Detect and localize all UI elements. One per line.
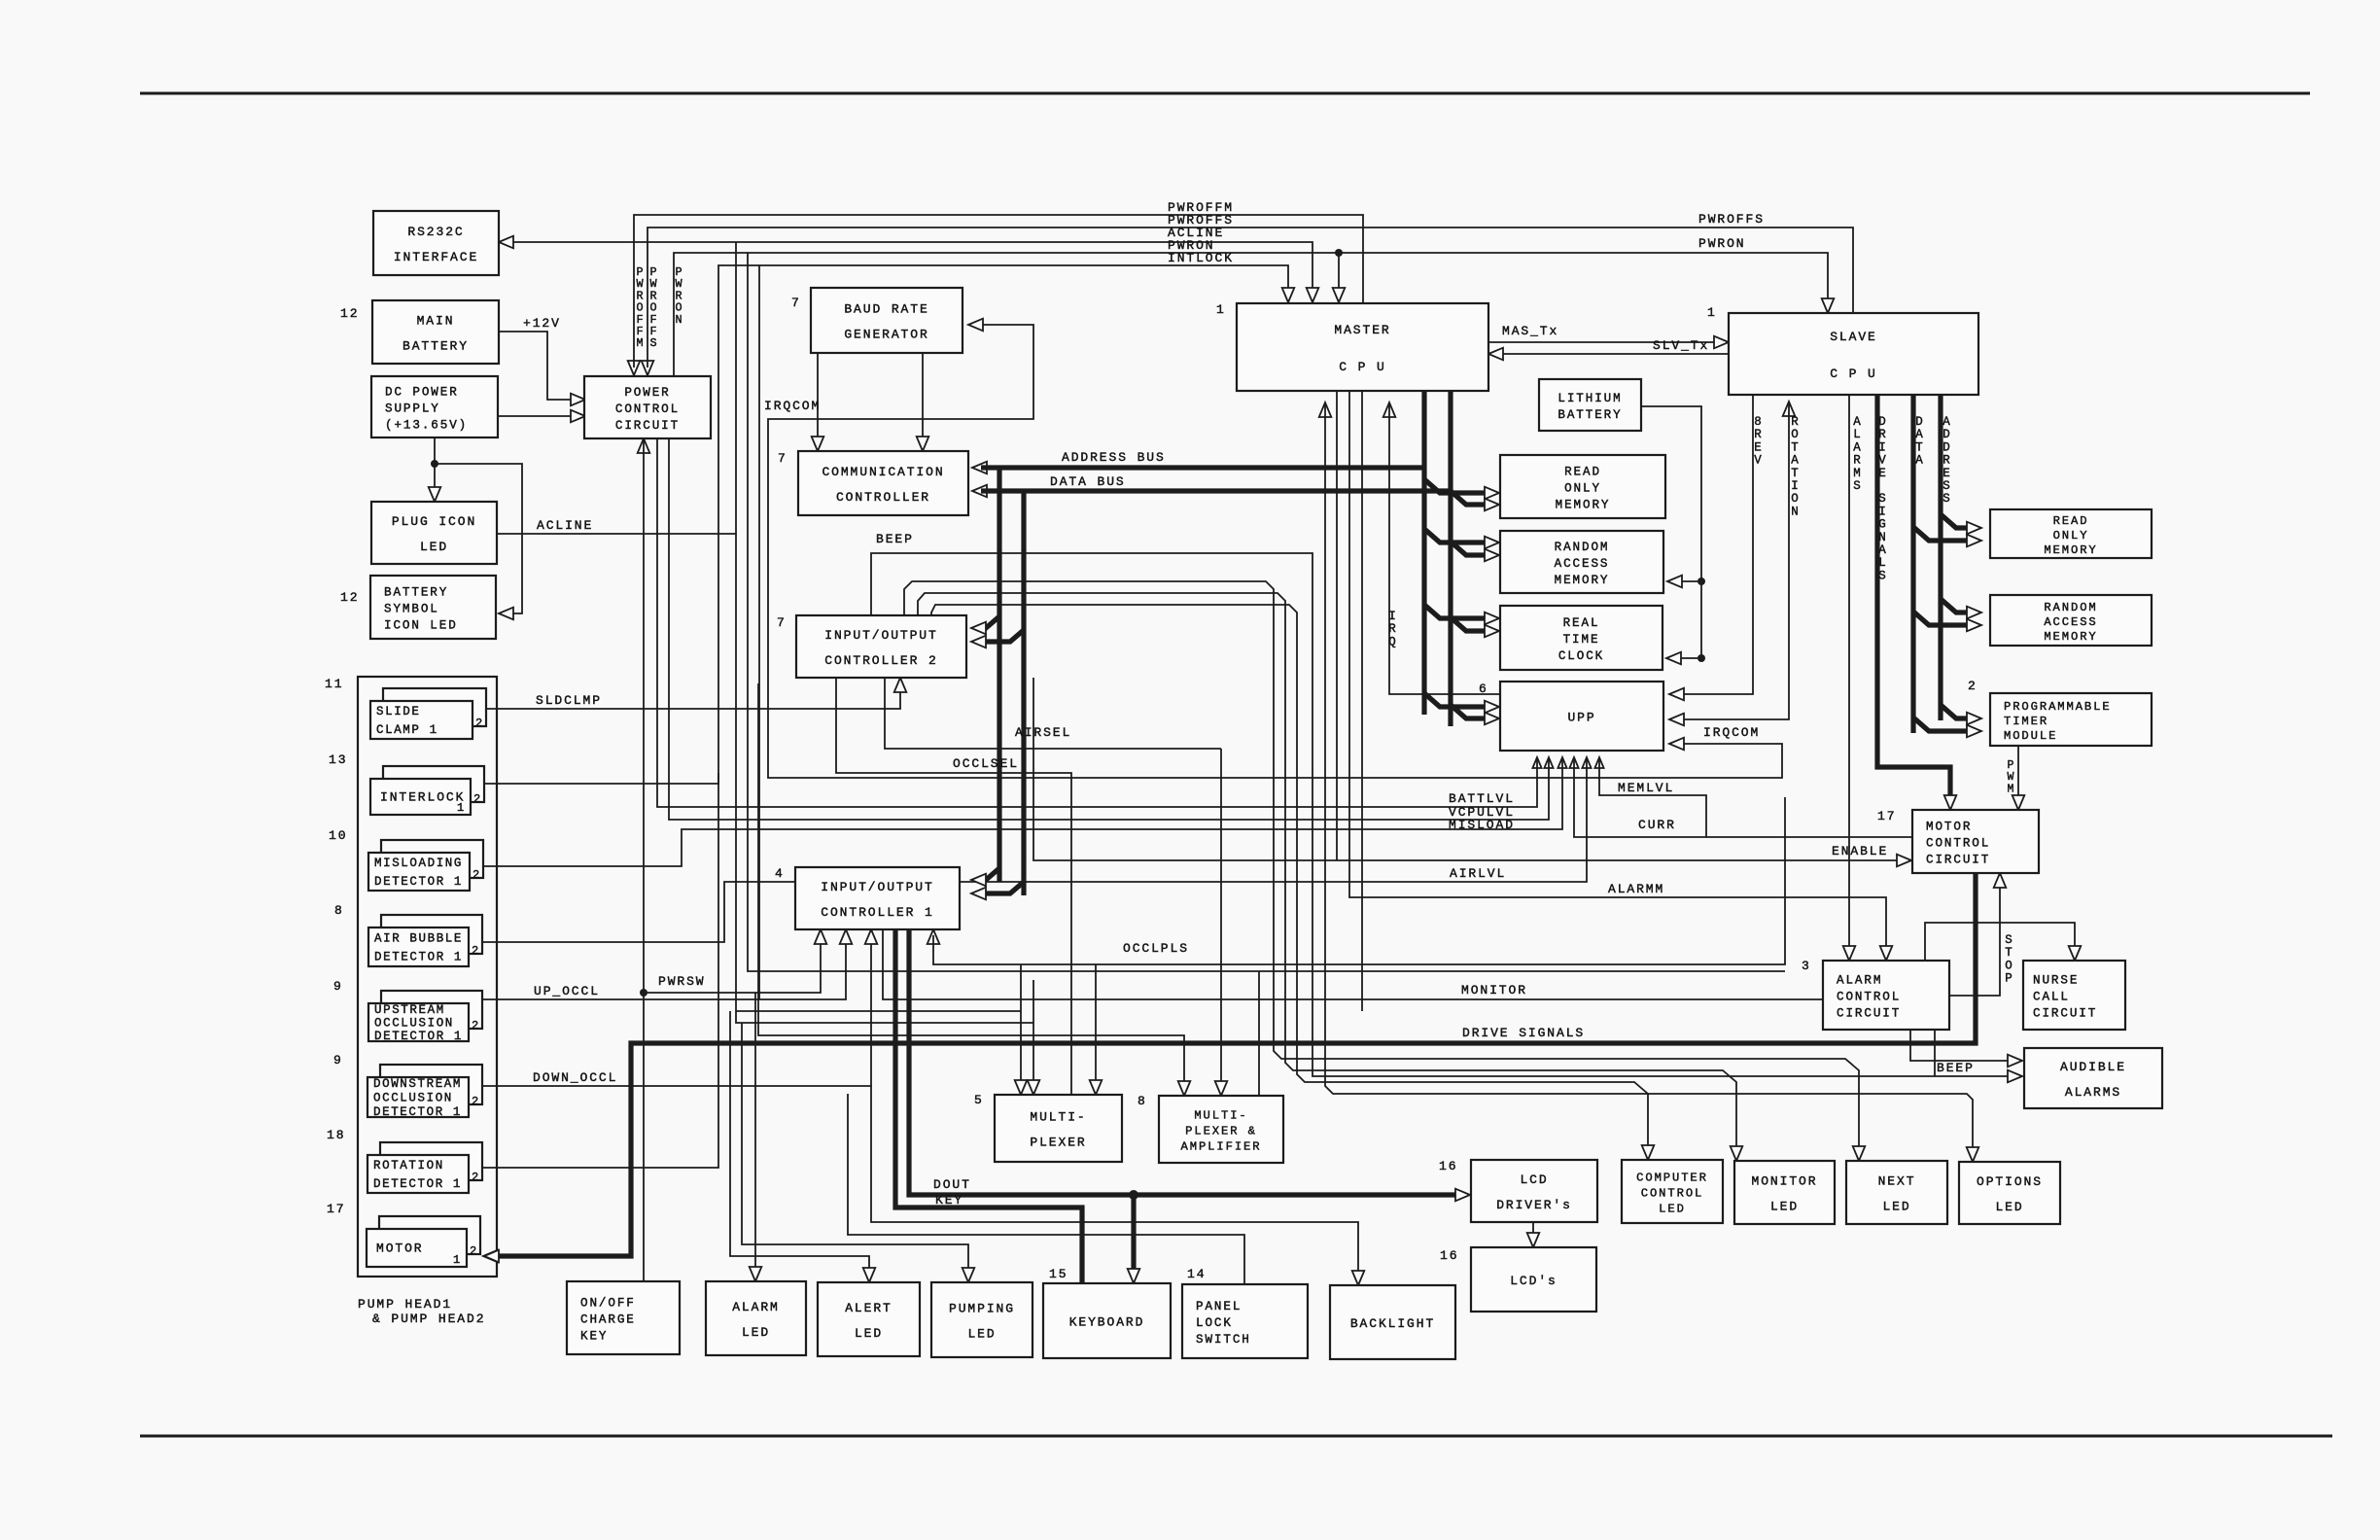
svg-text:LOCK: LOCK [1196, 1316, 1233, 1330]
svg-text:I: I [1791, 479, 1799, 493]
svg-text:INPUT/OUTPUT: INPUT/OUTPUT [821, 880, 933, 894]
svg-text:PLUG ICON: PLUG ICON [392, 514, 476, 529]
svg-text:6: 6 [1479, 682, 1488, 696]
svg-text:G: G [1878, 518, 1886, 532]
svg-text:ACCESS: ACCESS [1555, 557, 1610, 571]
svg-text:D: D [1942, 440, 1950, 454]
svg-text:SLAVE: SLAVE [1830, 330, 1877, 344]
svg-text:1: 1 [453, 1253, 462, 1267]
svg-text:DC POWER: DC POWER [385, 386, 459, 400]
svg-text:MISLOAD: MISLOAD [1449, 818, 1515, 832]
svg-text:BEEP: BEEP [876, 532, 914, 546]
svg-text:DETECTOR 1: DETECTOR 1 [374, 1030, 463, 1043]
svg-text:CONTROL: CONTROL [1837, 991, 1901, 1004]
svg-text:MEMORY: MEMORY [2044, 543, 2097, 557]
svg-text:CONTROL: CONTROL [1926, 837, 1990, 851]
svg-text:COMMUNICATION: COMMUNICATION [822, 465, 944, 479]
svg-text:MISLOADING: MISLOADING [374, 857, 463, 870]
svg-text:PLEXER: PLEXER [1030, 1136, 1086, 1150]
svg-text:DRIVER's: DRIVER's [1496, 1198, 1572, 1212]
svg-text:IRQCOM: IRQCOM [1703, 725, 1760, 740]
svg-text:SLIDE: SLIDE [376, 705, 421, 718]
svg-text:AIR BUBBLE: AIR BUBBLE [374, 932, 463, 946]
svg-text:D: D [1878, 415, 1886, 429]
svg-text:R: R [1853, 454, 1861, 468]
svg-text:9: 9 [333, 979, 343, 994]
svg-text:INTLOCK: INTLOCK [1168, 251, 1234, 265]
svg-text:14: 14 [1187, 1267, 1206, 1281]
svg-text:C P U: C P U [1830, 367, 1877, 381]
svg-text:MEMORY: MEMORY [1556, 499, 1611, 512]
svg-text:OCCLUSION: OCCLUSION [373, 1092, 453, 1105]
svg-text:S: S [1942, 492, 1950, 506]
svg-text:V: V [1754, 454, 1762, 468]
svg-text:BATTLVL: BATTLVL [1449, 791, 1515, 806]
svg-text:RANDOM: RANDOM [1555, 541, 1610, 554]
svg-text:CIRCUIT: CIRCUIT [615, 419, 680, 433]
svg-text:ROTATION: ROTATION [373, 1159, 444, 1172]
svg-text:ADDRESS BUS: ADDRESS BUS [1062, 450, 1166, 465]
svg-text:2: 2 [470, 1244, 478, 1258]
svg-text:I: I [1878, 440, 1886, 454]
svg-text:S: S [1878, 492, 1886, 506]
svg-text:8: 8 [334, 903, 344, 918]
svg-text:OPTIONS: OPTIONS [1977, 1174, 2043, 1189]
svg-text:ACCESS: ACCESS [2044, 615, 2097, 629]
svg-text:CONTROLLER 1: CONTROLLER 1 [821, 905, 933, 920]
svg-text:CONTROLLER 2: CONTROLLER 2 [824, 653, 937, 668]
svg-text:MEMORY: MEMORY [1555, 574, 1610, 587]
svg-text:17: 17 [1877, 809, 1896, 823]
svg-text:T: T [1791, 440, 1799, 454]
svg-text:TIME: TIME [1563, 633, 1600, 647]
svg-text:MONITOR: MONITOR [1461, 983, 1527, 997]
svg-text:DRIVE SIGNALS: DRIVE SIGNALS [1462, 1026, 1585, 1040]
svg-text:LED: LED [1770, 1200, 1799, 1214]
svg-text:AUDIBLE: AUDIBLE [2060, 1060, 2126, 1074]
svg-text:UPSTREAM: UPSTREAM [374, 1003, 445, 1017]
svg-text:TIMER: TIMER [2004, 715, 2048, 728]
svg-text:READ: READ [1564, 466, 1601, 479]
svg-text:AIRLVL: AIRLVL [1450, 866, 1506, 881]
svg-text:E: E [1754, 440, 1762, 454]
svg-text:P: P [2008, 759, 2014, 772]
svg-text:ONLY: ONLY [2053, 529, 2089, 542]
svg-text:12: 12 [340, 590, 359, 605]
svg-text:E: E [1942, 467, 1950, 480]
svg-text:R: R [1878, 428, 1886, 441]
svg-text:2: 2 [472, 944, 480, 958]
svg-text:MONITOR: MONITOR [1752, 1174, 1818, 1189]
svg-text:MULTI-: MULTI- [1194, 1109, 1247, 1123]
svg-text:PWRSW: PWRSW [658, 974, 706, 989]
svg-text:2: 2 [1968, 679, 1977, 693]
svg-text:D: D [1942, 428, 1950, 441]
svg-text:1: 1 [1216, 302, 1226, 317]
svg-text:12: 12 [340, 306, 359, 321]
svg-text:A: A [1915, 428, 1923, 441]
svg-text:ALARMM: ALARMM [1608, 882, 1664, 896]
svg-text:BACKLIGHT: BACKLIGHT [1350, 1316, 1435, 1331]
svg-text:+12V: +12V [523, 316, 561, 331]
svg-text:V: V [1878, 454, 1886, 468]
svg-text:ICON LED: ICON LED [384, 619, 458, 633]
svg-text:BATTERY: BATTERY [402, 339, 469, 354]
svg-text:18: 18 [327, 1128, 345, 1142]
svg-text:KEYBOARD: KEYBOARD [1069, 1315, 1145, 1330]
svg-text:ON/OFF: ON/OFF [580, 1297, 636, 1311]
svg-text:KEY: KEY [935, 1193, 963, 1207]
svg-text:1: 1 [1707, 305, 1717, 320]
svg-text:I: I [1878, 505, 1886, 518]
svg-text:13: 13 [329, 752, 347, 767]
svg-text:LED: LED [1995, 1200, 2023, 1214]
svg-text:SLV_Tx: SLV_Tx [1653, 338, 1709, 353]
svg-text:T: T [1915, 440, 1923, 454]
svg-text:DOWN_OCCL: DOWN_OCCL [533, 1070, 617, 1085]
svg-text:SUPPLY: SUPPLY [385, 402, 440, 416]
svg-text:DOWNSTREAM: DOWNSTREAM [373, 1077, 462, 1091]
svg-text:IRQCOM: IRQCOM [764, 399, 821, 413]
svg-text:INTERLOCK: INTERLOCK [380, 790, 465, 805]
svg-text:3: 3 [1802, 959, 1811, 973]
svg-text:R: R [1791, 415, 1799, 429]
svg-text:OCCLPLS: OCCLPLS [1123, 941, 1189, 956]
svg-text:ONLY: ONLY [1564, 482, 1601, 496]
svg-text:M: M [2008, 783, 2014, 795]
svg-text:OCCLSEL: OCCLSEL [953, 756, 1019, 771]
svg-text:POWER: POWER [624, 386, 670, 400]
svg-text:DETECTOR 1: DETECTOR 1 [374, 951, 463, 964]
svg-text:5: 5 [974, 1093, 984, 1107]
svg-text:PWROFFS: PWROFFS [1698, 212, 1765, 227]
svg-text:CIRCUIT: CIRCUIT [2033, 1007, 2097, 1021]
svg-text:2: 2 [472, 868, 481, 882]
svg-text:S: S [2005, 933, 2012, 947]
svg-text:RANDOM: RANDOM [2044, 601, 2097, 614]
svg-text:CURR: CURR [1638, 818, 1676, 832]
svg-text:PUMPING: PUMPING [949, 1302, 1015, 1316]
svg-text:2: 2 [473, 792, 482, 806]
svg-text:CALL: CALL [2033, 991, 2070, 1004]
svg-text:L: L [1878, 556, 1886, 570]
svg-text:PROGRAMMABLE: PROGRAMMABLE [2004, 700, 2112, 714]
svg-text:READ: READ [2053, 514, 2089, 528]
svg-text:PANEL: PANEL [1196, 1300, 1242, 1313]
svg-text:ALERT: ALERT [845, 1301, 892, 1315]
svg-text:CONTROLLER: CONTROLLER [836, 490, 930, 505]
svg-text:CHARGE: CHARGE [580, 1313, 636, 1327]
svg-text:CONTROL: CONTROL [1641, 1187, 1704, 1201]
svg-text:SYMBOL: SYMBOL [384, 603, 439, 616]
svg-text:PWRON: PWRON [1698, 236, 1746, 251]
svg-text:PLEXER &: PLEXER & [1185, 1125, 1257, 1138]
svg-text:R: R [1754, 428, 1762, 441]
svg-text:MAS_Tx: MAS_Tx [1502, 324, 1558, 338]
svg-text:15: 15 [1049, 1267, 1067, 1281]
svg-text:DATA BUS: DATA BUS [1050, 474, 1126, 489]
svg-text:CLAMP 1: CLAMP 1 [376, 723, 438, 737]
svg-text:BAUD RATE: BAUD RATE [844, 302, 928, 317]
svg-text:ALARM: ALARM [732, 1300, 780, 1314]
svg-text:2: 2 [472, 1019, 480, 1032]
svg-text:T: T [1791, 467, 1799, 480]
svg-text:MEMORY: MEMORY [2044, 630, 2097, 644]
svg-text:2: 2 [472, 1171, 480, 1184]
svg-text:O: O [2005, 959, 2012, 972]
svg-text:OCCLUSION: OCCLUSION [374, 1017, 454, 1031]
svg-text:MAIN: MAIN [417, 314, 455, 329]
svg-text:INTERFACE: INTERFACE [394, 250, 478, 264]
svg-text:MOTOR: MOTOR [1926, 821, 1972, 834]
svg-text:CIRCUIT: CIRCUIT [1837, 1007, 1901, 1021]
svg-text:A: A [1853, 440, 1861, 454]
svg-text:W: W [2008, 771, 2014, 784]
svg-text:16: 16 [1440, 1248, 1458, 1263]
svg-text:LCD: LCD [1520, 1172, 1548, 1187]
svg-text:S: S [1853, 479, 1861, 493]
svg-text:C P U: C P U [1339, 360, 1386, 374]
svg-text:MEMLVL: MEMLVL [1618, 781, 1674, 795]
svg-text:LITHIUM: LITHIUM [1557, 392, 1622, 405]
svg-text:O: O [1791, 492, 1799, 506]
svg-text:DETECTOR 1: DETECTOR 1 [373, 1105, 462, 1119]
svg-text:P: P [2005, 972, 2012, 986]
svg-text:2: 2 [475, 717, 484, 730]
svg-text:LED: LED [855, 1326, 883, 1341]
svg-text:2: 2 [472, 1095, 480, 1108]
svg-text:BATTERY: BATTERY [1557, 408, 1622, 422]
svg-text:MULTI-: MULTI- [1030, 1110, 1086, 1125]
svg-text:ENABLE: ENABLE [1832, 844, 1888, 858]
svg-text:N: N [675, 313, 682, 327]
svg-text:BEEP: BEEP [1937, 1061, 1975, 1075]
svg-text:CIRCUIT: CIRCUIT [1926, 854, 1990, 867]
svg-text:MODULE: MODULE [2004, 729, 2057, 743]
svg-text:REAL: REAL [1563, 616, 1600, 630]
svg-text:MOTOR: MOTOR [376, 1242, 424, 1256]
svg-text:N: N [1878, 531, 1886, 544]
svg-text:A: A [1853, 415, 1861, 429]
svg-text:7: 7 [777, 615, 787, 630]
svg-text:T: T [2005, 946, 2012, 960]
svg-text:O: O [1791, 428, 1799, 441]
svg-text:M: M [636, 336, 643, 350]
svg-text:17: 17 [327, 1202, 345, 1216]
svg-text:LED: LED [967, 1327, 996, 1342]
svg-text:DOUT: DOUT [933, 1177, 971, 1192]
svg-text:S: S [649, 336, 656, 350]
svg-text:AMPLIFIER: AMPLIFIER [1181, 1140, 1262, 1154]
svg-text:UP_OCCL: UP_OCCL [534, 984, 600, 998]
svg-text:SLDCLMP: SLDCLMP [536, 693, 602, 708]
svg-text:ACLINE: ACLINE [537, 518, 593, 533]
svg-text:M: M [1853, 467, 1861, 480]
svg-text:16: 16 [1439, 1159, 1457, 1173]
svg-text:SWITCH: SWITCH [1196, 1333, 1251, 1347]
svg-text:A: A [1878, 543, 1886, 557]
svg-text:LCD's: LCD's [1510, 1274, 1557, 1288]
svg-text:4: 4 [775, 866, 785, 881]
svg-text:NEXT: NEXT [1878, 1174, 1916, 1189]
svg-text:NURSE: NURSE [2033, 974, 2079, 988]
svg-text:LED: LED [1659, 1203, 1686, 1216]
svg-text:L: L [1853, 428, 1861, 441]
svg-text:R: R [1388, 622, 1396, 636]
svg-text:INPUT/OUTPUT: INPUT/OUTPUT [824, 628, 937, 643]
svg-text:(+13.65V): (+13.65V) [385, 419, 468, 433]
svg-text:COMPUTER: COMPUTER [1636, 1172, 1708, 1185]
svg-text:8: 8 [1754, 415, 1762, 429]
svg-text:11: 11 [325, 677, 343, 691]
svg-text:UPP: UPP [1567, 711, 1595, 725]
svg-text:N: N [1791, 505, 1799, 518]
svg-text:DETECTOR 1: DETECTOR 1 [374, 875, 463, 889]
svg-text:A: A [1915, 454, 1923, 468]
svg-text:D: D [1915, 415, 1923, 429]
svg-text:LED: LED [742, 1325, 770, 1340]
svg-text:CLOCK: CLOCK [1558, 649, 1604, 663]
svg-text:R: R [1942, 454, 1950, 468]
svg-text:AIRSEL: AIRSEL [1015, 725, 1071, 740]
svg-text:S: S [1942, 479, 1950, 493]
svg-text:8: 8 [1137, 1094, 1147, 1108]
svg-text:BATTERY: BATTERY [384, 586, 448, 600]
svg-text:ALARM: ALARM [1837, 974, 1882, 988]
svg-text:RS232C: RS232C [407, 225, 464, 239]
svg-text:7: 7 [778, 451, 787, 466]
svg-text:Q: Q [1388, 635, 1396, 648]
svg-text:GENERATOR: GENERATOR [844, 328, 928, 342]
svg-text:S: S [1878, 569, 1886, 582]
svg-text:A: A [1942, 415, 1950, 429]
svg-text:MASTER: MASTER [1334, 323, 1390, 337]
svg-text:LED: LED [1882, 1200, 1910, 1214]
svg-text:E: E [1878, 467, 1886, 480]
svg-text:& PUMP HEAD2: & PUMP HEAD2 [372, 1312, 485, 1326]
svg-text:PUMP HEAD1: PUMP HEAD1 [358, 1297, 452, 1312]
svg-text:10: 10 [329, 828, 347, 843]
svg-text:A: A [1791, 454, 1799, 468]
svg-text:KEY: KEY [580, 1330, 608, 1344]
svg-text:ALARMS: ALARMS [2065, 1085, 2121, 1100]
svg-text:9: 9 [333, 1053, 343, 1067]
svg-text:LED: LED [420, 540, 448, 554]
svg-text:DETECTOR 1: DETECTOR 1 [373, 1177, 462, 1191]
svg-text:CONTROL: CONTROL [615, 402, 680, 416]
svg-text:1: 1 [457, 801, 466, 815]
svg-text:7: 7 [791, 296, 801, 310]
svg-text:I: I [1388, 610, 1396, 623]
